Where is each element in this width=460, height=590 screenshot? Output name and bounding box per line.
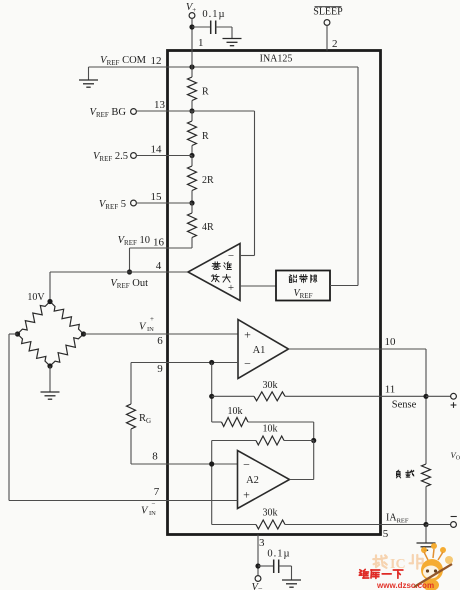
ground (bottom bypass) <box>282 579 301 581</box>
svg-text:−: − <box>152 500 156 508</box>
svg-text:IN: IN <box>147 326 154 333</box>
svg-text:0.1µ: 0.1µ <box>202 9 225 20</box>
wire pin1 V+ to box <box>191 18 193 50</box>
wire bandgap output <box>330 285 358 287</box>
svg-text:1: 1 <box>198 37 204 49</box>
svg-text:2R: 2R <box>202 175 214 186</box>
wire pin15 <box>136 202 192 204</box>
svg-text:www.dzsc.com: www.dzsc.com <box>376 581 434 590</box>
svg-text:R: R <box>202 131 209 142</box>
svg-text:30k: 30k <box>263 380 278 391</box>
wire C1 right to ground <box>216 26 232 28</box>
junction pin9 feedback <box>209 360 214 365</box>
resistor 10k (lower) <box>212 440 256 442</box>
junction pin13 tap <box>189 108 194 113</box>
svg-text:−: − <box>243 458 250 472</box>
junction pin3/C2 <box>255 563 260 568</box>
svg-text:2: 2 <box>332 38 338 50</box>
wire pin12 VrefCOM <box>89 66 359 68</box>
svg-text:IN: IN <box>149 510 156 517</box>
wire C1 left <box>192 26 210 28</box>
junction pin14 tap <box>189 153 194 158</box>
watermark mascot <box>414 543 453 590</box>
svg-text:−: − <box>228 250 234 262</box>
resistor 30k (IAref) <box>212 524 256 526</box>
wire load bottom <box>425 487 427 525</box>
ground (VREF COM) <box>88 67 90 80</box>
svg-text:10: 10 <box>385 336 397 348</box>
svg-text:13: 13 <box>154 99 166 111</box>
svg-text:15: 15 <box>151 191 163 203</box>
wire A2 minus chain <box>211 441 213 525</box>
capacitor C2 0.1u <box>273 560 275 574</box>
wire pin6 V+IN <box>84 333 239 335</box>
wire bridge bottom to ground <box>49 366 51 392</box>
svg-text:V−: V− <box>252 582 263 590</box>
op-amp A1 <box>238 320 289 379</box>
wire A1 output pin10 <box>289 348 427 350</box>
wire pin9 to A1 minus <box>131 362 238 364</box>
wire bandgap to pin12 rail <box>357 67 359 286</box>
capacitor C1 0.1u <box>210 21 212 35</box>
resistor 10k (upper) <box>212 421 222 423</box>
wire 10k upper down <box>313 422 315 441</box>
wire ref amp plus input <box>240 285 276 287</box>
svg-text:4: 4 <box>156 260 162 272</box>
wire pin1 to chain <box>191 51 193 68</box>
IC body INA125 <box>168 51 381 535</box>
svg-text:INA125: INA125 <box>260 54 293 65</box>
wire pin13 <box>136 110 254 112</box>
wire pin3 <box>257 535 259 576</box>
junction V+ / C1 <box>189 24 194 29</box>
wire pin7 V-IN <box>9 500 238 502</box>
wire output down right side <box>425 349 427 464</box>
svg-text:11: 11 <box>385 384 396 396</box>
wire pin13 to ref amp minus <box>254 111 256 256</box>
node bridge left <box>15 331 20 336</box>
junction 10k/10k/A2out <box>311 438 316 443</box>
watermark red text weiku <box>359 569 368 578</box>
svg-text:VREF Out: VREF Out <box>110 278 148 290</box>
bridge resistor top-right <box>50 302 84 335</box>
svg-text:16: 16 <box>153 237 165 249</box>
ground (bridge) <box>41 391 60 393</box>
svg-text:3: 3 <box>259 537 265 549</box>
bridge resistor bottom-left <box>18 334 51 366</box>
resistor RG <box>127 404 136 429</box>
bandgap VREF box <box>276 271 330 301</box>
V- terminal <box>255 576 261 582</box>
resistor 4R <box>191 203 193 213</box>
junction pin12/R chain <box>189 64 194 69</box>
wire pin4 VREF Out <box>50 271 188 273</box>
svg-text:VREF BG: VREF BG <box>90 107 127 119</box>
junction IAref <box>423 522 428 527</box>
wire bridge left to pin7 <box>9 333 18 335</box>
svg-text:0.1µ: 0.1µ <box>267 549 290 560</box>
terminal - output <box>426 524 451 526</box>
terminal + output <box>426 395 451 397</box>
wire pin2 SLEEP to box <box>326 25 328 50</box>
wire pin14 <box>136 155 192 157</box>
wire pin9 node down <box>211 363 213 423</box>
svg-text:9: 9 <box>157 363 163 375</box>
wire RG bottom to pin8 <box>130 429 132 464</box>
wire bridge top to pin4 <box>49 272 51 302</box>
bridge resistor top-left <box>18 302 51 335</box>
svg-text:R: R <box>202 87 209 98</box>
op-amp A2 <box>238 451 290 509</box>
wire pin16 to pin4 <box>129 248 131 272</box>
wire ref amp minus input <box>240 255 255 257</box>
junction 30k tap <box>209 394 214 399</box>
op-amp reference amplifier (basic amp) <box>188 244 240 301</box>
svg-text:Sense: Sense <box>392 400 417 411</box>
resistor R (top) <box>191 67 193 77</box>
wire C2 right to ground <box>279 565 292 567</box>
junction pin4/pin16 <box>127 269 132 274</box>
svg-text:4R: 4R <box>202 222 214 233</box>
svg-text:−: − <box>244 357 251 371</box>
resistor 2R <box>191 156 193 167</box>
svg-text:8: 8 <box>152 451 158 463</box>
bridge resistor bottom-right <box>50 334 84 366</box>
svg-text:10V: 10V <box>27 292 45 303</box>
node bridge top <box>47 299 52 304</box>
svg-text:7: 7 <box>154 486 160 498</box>
svg-text:30k: 30k <box>263 508 278 519</box>
svg-text:+: + <box>228 282 234 294</box>
svg-text:SLEEP: SLEEP <box>313 7 343 18</box>
ground (IAref) <box>425 525 427 544</box>
svg-text:A1: A1 <box>253 345 266 356</box>
svg-text:+: + <box>244 328 251 342</box>
svg-text:10k: 10k <box>228 406 243 417</box>
svg-text:A2: A2 <box>246 475 259 486</box>
ground (top bypass) <box>223 38 242 40</box>
svg-text:10k: 10k <box>263 424 278 435</box>
wire C2 left <box>258 565 273 567</box>
node bridge right <box>81 331 86 336</box>
wire A2 output <box>290 479 314 481</box>
svg-text:+: + <box>243 488 250 502</box>
svg-text:+: + <box>150 315 154 323</box>
svg-text:12: 12 <box>151 55 162 67</box>
junction pin15 tap <box>189 200 194 205</box>
watermark orange slogan <box>373 555 386 568</box>
junction sense <box>423 394 428 399</box>
svg-text:14: 14 <box>151 144 163 156</box>
wire pin16 <box>130 247 193 249</box>
svg-text:5: 5 <box>383 528 389 540</box>
junction pin8/A2 minus <box>209 461 214 466</box>
resistor load <box>422 464 431 487</box>
node bridge bottom <box>47 363 52 368</box>
svg-text:6: 6 <box>157 335 163 347</box>
wire RG top <box>130 363 132 405</box>
resistor R (second) <box>191 111 193 121</box>
resistor 30k (sense) <box>212 395 254 397</box>
